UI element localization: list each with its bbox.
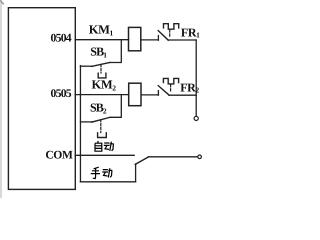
svg-text:0504: 0504 [51, 32, 72, 45]
wire 0504 row (coil to FR1) [141, 39, 158, 41]
label 手动 (manual), drawn strokes [91, 167, 113, 178]
selector switch: pole wire [148, 156, 197, 158]
wire 0504 row (FR1 to right rail) [168, 39, 196, 41]
wire 0505 row (PLC to coil) [75, 94, 129, 96]
pushbutton SB1: dashed actuator [100, 65, 102, 73]
thermal contact FR2: blade [158, 86, 169, 96]
selector switch: blade [135, 157, 148, 165]
pushbutton SB2: link to row [110, 95, 121, 118]
svg-text:COM: COM [45, 149, 73, 162]
contactor coil KM1 [129, 27, 141, 50]
thermal contact FR2: dashed link [170, 85, 172, 93]
contactor coil KM2 [129, 83, 141, 106]
wire 0505 row (FR2 to right rail) [169, 94, 196, 96]
svg-text:0505: 0505 [51, 87, 72, 100]
thermal contact FR2: operator element [163, 78, 178, 84]
thermal contact FR2: fixed tick [157, 91, 159, 96]
selector switch: manual contact riser [135, 164, 137, 182]
pushbutton SB2: blade [92, 117, 110, 122]
PLC block [8, 8, 75, 190]
corner speck [1, 1, 4, 4]
pushbutton SB2: dashed actuator [100, 120, 102, 133]
pushbutton SB1: fixed wire [80, 65, 92, 67]
thermal contact FR1: fixed tick [157, 36, 159, 41]
thermal contact FR1: dashed link [169, 30, 171, 38]
thermal contact FR1: operator element [164, 24, 179, 30]
wire COM row [75, 154, 134, 156]
manual bus wire (vertical) [79, 66, 81, 182]
pushbutton SB2: operator head [98, 133, 107, 138]
page border remnant line [0, 0, 2, 198]
thermal contact FR1: blade [158, 31, 168, 41]
pushbutton SB1: link to row [110, 40, 122, 63]
terminal circle lower [198, 155, 202, 159]
wire 0504 row (PLC to coil) [75, 39, 129, 41]
wire right rail (FR1 down past FR2 to terminal) [195, 40, 197, 95]
pushbutton SB1: blade [92, 63, 110, 67]
pushbutton SB2: fixed wire [80, 121, 92, 123]
wire manual row [80, 181, 135, 183]
pushbutton SB1: operator head [98, 73, 106, 78]
terminal circle upper [194, 116, 198, 120]
label 自动 (auto), drawn strokes [95, 141, 114, 151]
wire 0505 row (coil to FR2) [141, 94, 158, 96]
